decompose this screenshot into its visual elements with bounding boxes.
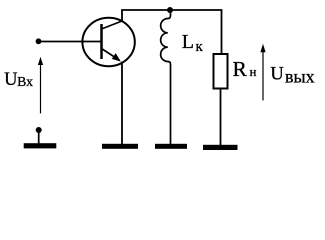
node junction dot top rail xyxy=(167,7,173,13)
arrow U_Bx xyxy=(38,57,43,114)
ground (input) xyxy=(24,143,57,148)
svg-text:U: U xyxy=(270,65,283,85)
wire lower terminal stub xyxy=(38,130,40,144)
wire base xyxy=(39,41,102,43)
ground (resistor) xyxy=(203,145,238,150)
wire resistor to ground xyxy=(220,89,222,146)
ground (emitter) xyxy=(102,144,138,149)
transistor Q1 xyxy=(82,18,134,66)
svg-text:н: н xyxy=(250,64,257,79)
svg-text:L: L xyxy=(182,31,194,53)
svg-text:Вх: Вх xyxy=(17,74,33,89)
node input terminal dot xyxy=(36,38,42,44)
svg-text:U: U xyxy=(4,70,17,90)
ground (inductor) xyxy=(155,144,187,149)
svg-text:к: к xyxy=(196,39,204,55)
node input lower terminal dot xyxy=(36,127,42,133)
wire collector to top rail, top rail, right drop xyxy=(122,10,222,54)
resistor R1 xyxy=(214,54,228,89)
inductor L1 xyxy=(161,10,171,145)
arrow U_vyx xyxy=(260,44,265,101)
svg-text:R: R xyxy=(233,57,248,81)
wire emitter to ground xyxy=(121,62,123,145)
svg-text:вых: вых xyxy=(285,66,315,86)
